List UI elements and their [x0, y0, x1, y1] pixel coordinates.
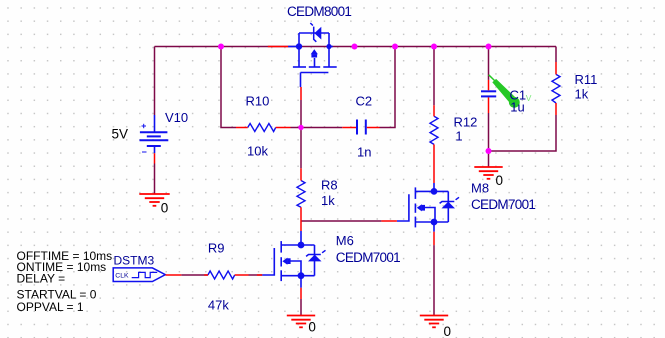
svg-text:CEDM7001: CEDM7001 [336, 250, 400, 265]
ground 0 under M6 [287, 316, 315, 328]
channel stub left [298, 47, 300, 68]
pin R11 top [555, 62, 557, 74]
gate bar [301, 72, 329, 74]
wire R9 to M6 gate [249, 274, 263, 276]
svg-text:M8: M8 [471, 181, 489, 196]
source stub [281, 275, 314, 277]
pin R9 right [235, 274, 249, 276]
svg-text:CEDM8001: CEDM8001 [287, 4, 351, 19]
wire R12 branch from rail [433, 47, 435, 106]
ground 0 under V10 [139, 194, 169, 206]
pin V10 minus (red pin stub) [154, 153, 156, 163]
wire battery V10 bottom to ground [154, 164, 156, 195]
junction dot node A [298, 125, 303, 130]
source lead down [433, 222, 435, 232]
svg-text:DSTM3: DSTM3 [114, 254, 155, 268]
junction dot rail/R12 branch [431, 44, 437, 50]
wire C1 bottom to node B [488, 113, 490, 151]
resistor R11 [552, 74, 560, 103]
svg-text:C2: C2 [356, 93, 373, 108]
pin DSTM3 output (red) [166, 274, 182, 276]
junction dot rail/C1 branch [486, 44, 492, 50]
digital stimulus DSTM3 [113, 268, 165, 282]
wire battery V10 top vertical [154, 47, 156, 116]
bulk line [424, 208, 435, 223]
body loop horizontal [299, 32, 329, 34]
body loop left vertical [298, 33, 300, 47]
wire node B to R11 bottom [489, 115, 557, 151]
wire DSTM3 output to R9 [181, 274, 208, 276]
resistor R12 [430, 116, 438, 144]
junction dot rail/C2 branch [392, 44, 398, 50]
svg-text:R10: R10 [246, 93, 270, 108]
wire R10 right to node A [291, 127, 302, 129]
pin R10 right [276, 127, 291, 129]
body loop right vertical [328, 33, 330, 47]
source lead down [300, 276, 302, 288]
resistor R9 [208, 271, 235, 279]
svg-text:47k: 47k [208, 298, 229, 313]
pin C2 left [342, 127, 356, 129]
capacitor C1 [481, 91, 496, 96]
pin CEDM8001 drain (red) [268, 46, 288, 48]
wire node A to C2 left [301, 127, 342, 129]
drain lead [288, 46, 299, 48]
pin CEDM8001 gate (red) [300, 87, 302, 100]
svg-text:1k: 1k [575, 87, 589, 102]
capacitor C2 [357, 120, 366, 135]
bulk arrow of M8 [417, 204, 425, 211]
pin R12 bottom + M8 drain pin [433, 144, 435, 183]
ground 0 under M8 [420, 316, 448, 328]
wire top power rail [155, 46, 557, 48]
channel bar middle [309, 66, 320, 68]
wire M6 source to ground [300, 299, 302, 316]
svg-text:V10: V10 [165, 110, 188, 125]
right vertical (body) [314, 245, 316, 276]
wire C2 right up to rail [380, 47, 396, 128]
bulk line [290, 261, 301, 276]
junction dot rail x354 [352, 44, 358, 50]
svg-text:0: 0 [496, 173, 504, 188]
transistor M8 CEDM7001 [397, 183, 448, 232]
svg-text:DELAY =: DELAY = [17, 272, 66, 286]
svg-text:M6: M6 [336, 233, 354, 248]
body diode of M8 [440, 197, 459, 208]
svg-text:CLK: CLK [115, 273, 129, 280]
svg-text:5V: 5V [112, 126, 129, 141]
gate lead [397, 194, 409, 221]
gate bar is the vertical above; channel segments [414, 187, 416, 199]
svg-text:V: V [526, 93, 532, 103]
pin M6 drain (red) [300, 221, 302, 231]
junction dot rail/R10 branch [218, 44, 224, 50]
pin C2 right [367, 127, 380, 129]
pin R10 left [236, 127, 248, 129]
wire M8 source to ground [433, 245, 435, 315]
svg-text:0: 0 [161, 201, 169, 216]
drain stub [281, 244, 314, 246]
resistor R10 [248, 124, 276, 132]
svg-text:R11: R11 [575, 72, 598, 87]
drain stub [415, 190, 448, 192]
bulk arrow of M6 [282, 258, 290, 265]
terminal dot M8 source [431, 219, 438, 226]
pin M8 gate (red) [381, 220, 397, 222]
channel stub middle (bulk) [314, 58, 316, 67]
svg-text:1u: 1u [510, 100, 524, 115]
svg-text:0: 0 [444, 324, 452, 338]
resistor R8 [297, 181, 305, 208]
wire R10 left branch (rail down to R10) [221, 47, 236, 128]
svg-text:1n: 1n [357, 145, 371, 160]
pin R8 bottom [300, 207, 302, 221]
terminal dot M8 drain [431, 188, 438, 195]
voltage source V10 [140, 115, 169, 153]
terminal dot CEDM8001 source [326, 44, 331, 49]
pin R9 left [204, 274, 208, 276]
channel stub right [328, 47, 330, 68]
svg-text:CEDM7001: CEDM7001 [471, 197, 535, 212]
channel bar right [323, 66, 336, 68]
pin R8 top [300, 168, 302, 180]
terminal dot M6 source [298, 272, 305, 279]
body diode of M6 [306, 250, 325, 261]
right vertical (body) [447, 191, 449, 222]
wire node A down to R8 [300, 128, 302, 169]
svg-text:R12: R12 [454, 114, 478, 129]
svg-text:R8: R8 [321, 178, 338, 193]
svg-text:0: 0 [308, 320, 316, 335]
wire node B to ground stub [488, 151, 490, 167]
pin M6 source (red) [300, 288, 302, 299]
gate lead down [300, 73, 302, 88]
pin C1 bottom [488, 97, 490, 113]
wire R8 bottom to M8 gate net [301, 220, 381, 222]
wire C1 branch from rail [488, 47, 490, 80]
ground 0 under C1 (node B) [474, 167, 502, 179]
pin M6 gate (red) [257, 274, 262, 276]
svg-text:1k: 1k [321, 193, 335, 208]
source stub [415, 221, 448, 223]
wire rail corner down to R11 [555, 47, 557, 63]
drain lead up [300, 231, 302, 245]
body diode of CEDM8001 [310, 23, 321, 42]
voltage marker probe (green) [489, 75, 520, 108]
source lead [329, 46, 333, 48]
stimulus attribute text block [17, 249, 113, 314]
channel bar left [293, 66, 306, 68]
terminal dot CEDM8001 drain [296, 43, 302, 49]
pin R12 top [433, 105, 435, 116]
svg-text:OPPVAL = 1: OPPVAL = 1 [17, 300, 84, 314]
wire gate of CEDM8001 down to node A [300, 100, 302, 128]
transistor CEDM8001 (PMOS, horizontal) [288, 33, 337, 87]
gate lead [262, 248, 274, 275]
terminal dot M6 drain [298, 242, 305, 249]
drain lead up [433, 183, 435, 191]
pin M8 source (red) [433, 232, 435, 245]
pin R11 bottom [555, 103, 557, 115]
junction dot node B [486, 148, 492, 154]
channel segments [280, 241, 282, 253]
transistor M6 CEDM7001 [262, 231, 314, 288]
svg-text:1: 1 [455, 129, 462, 144]
svg-text:R9: R9 [208, 241, 225, 256]
pin C1 top [488, 80, 490, 90]
bulk arrow of CEDM8001 [311, 49, 318, 57]
svg-text:10k: 10k [247, 144, 268, 159]
